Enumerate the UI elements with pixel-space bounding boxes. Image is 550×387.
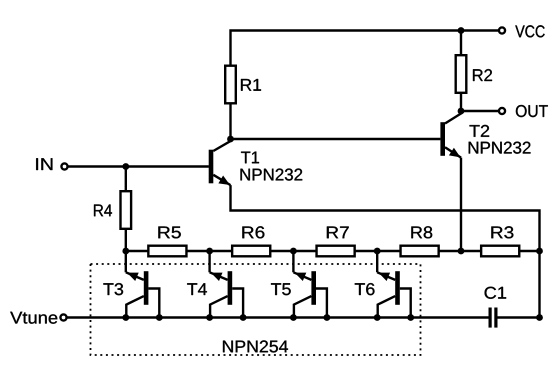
resistor R6 [232,246,270,257]
wire [125,230,127,251]
Vtune terminal [60,314,66,320]
node T5 collector [290,314,297,321]
T5 label [271,283,291,295]
wire [68,165,209,167]
R4 label [94,205,112,217]
capacitor C1 [490,308,496,328]
T1 value NPN232 [241,169,303,181]
wire [498,316,540,318]
transistor T4 [210,251,244,318]
wire [538,251,540,318]
resistor R5 [148,246,186,257]
wire [231,138,441,140]
node R3 right [536,248,543,255]
resistor R3 [481,246,519,257]
wire [231,185,540,251]
T2 value NPN232 [469,142,531,154]
IN terminal [61,163,67,169]
R6 label [242,226,264,238]
dotted box NPN254 array [91,264,421,355]
IN label [36,158,52,170]
OUT terminal [499,108,505,114]
wire [231,31,499,67]
R8 label [411,226,432,238]
transistor T6 [377,251,411,318]
transistor T1 [209,139,231,185]
R1 label [241,79,261,91]
T6 label [355,283,375,295]
Vtune label [10,312,57,324]
C1 label [485,287,507,299]
node row T5 [290,248,297,255]
wire [460,158,462,251]
transistor T2 [440,111,461,158]
VCC label [515,25,544,37]
node bottom right corner [536,314,543,321]
node VCC rail junction [458,27,465,34]
resistor R8 [401,246,439,257]
T1 label [241,152,259,164]
node row T3 [122,248,129,255]
T3 label [103,283,123,295]
VCC terminal [499,27,505,33]
node T6 base [407,314,414,321]
transistor T3 [126,251,160,318]
node T3 base [156,314,163,321]
node R4 top [122,163,129,170]
NPN254 label [223,340,288,352]
node T3 collector [122,314,129,321]
wire [460,94,462,111]
transistor T5 [293,251,327,318]
R7 label [327,227,349,239]
T2 label [470,125,490,137]
node T5 base [324,314,331,321]
node T2 emitter / R8 / R3 [458,248,465,255]
node OUT / T2 collector [458,108,465,115]
wire [67,316,489,318]
R2 label [473,69,492,81]
wire [126,250,540,252]
node T4 collector [206,314,213,321]
resistor R4 [121,191,132,229]
wire [125,167,127,192]
node T1 collector / R1 / T2 base [227,136,234,143]
T4 label [187,283,207,295]
wire [461,110,499,112]
node T6 collector [374,314,381,321]
OUT label [516,105,548,117]
resistor R2 [456,55,467,93]
resistor R7 [317,246,355,257]
R5 label [158,227,180,239]
node row T4 [206,248,213,255]
R3 label [491,226,513,238]
wire [460,31,462,57]
node T4 base [240,314,247,321]
wire [229,104,231,139]
resistor R1 [225,66,236,104]
node row T6 [374,248,381,255]
